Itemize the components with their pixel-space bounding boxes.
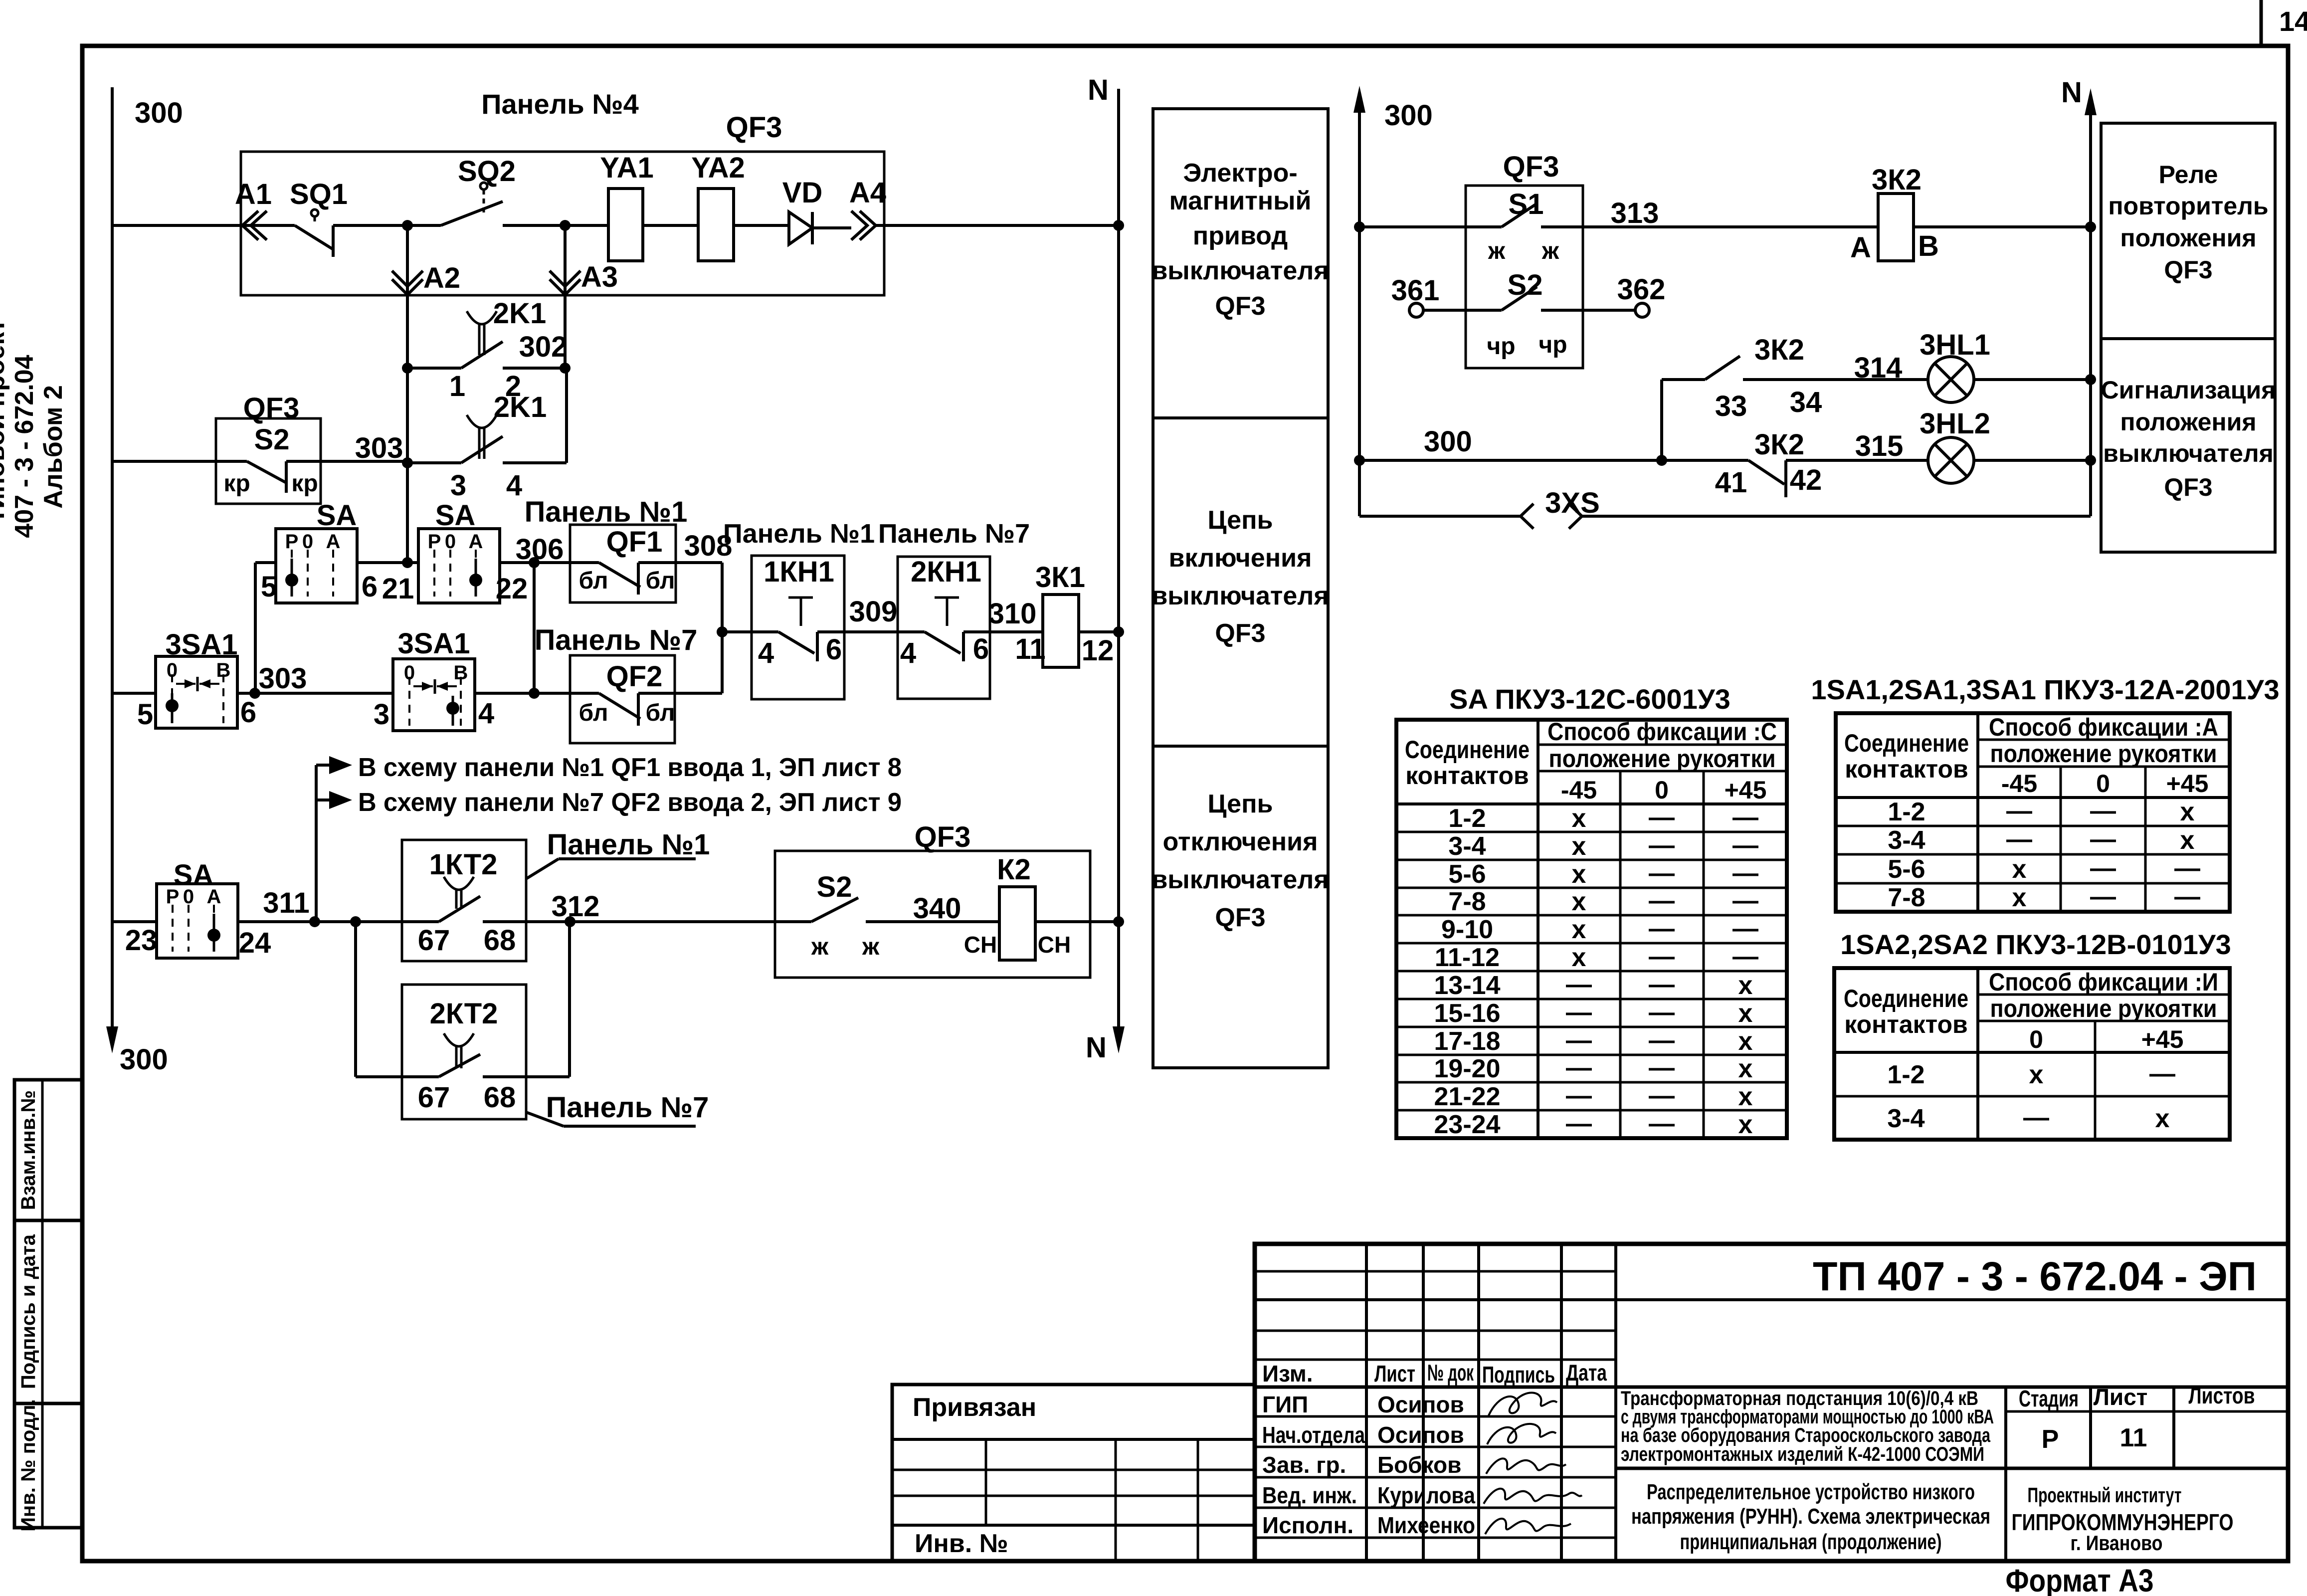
svg-text:Лист: Лист (1374, 1361, 1415, 1387)
svg-text:SA ПКУ3-12С-6001У3: SA ПКУ3-12С-6001У3 (1449, 683, 1730, 715)
svg-text:Курилова: Курилова (1377, 1482, 1475, 1508)
svg-text:300: 300 (1424, 425, 1472, 458)
svg-text:ж: ж (862, 934, 880, 960)
svg-text:QF2: QF2 (606, 660, 663, 693)
svg-text:Р: Р (285, 531, 299, 553)
svg-text:контактов: контактов (1845, 755, 1968, 783)
svg-text:Панель №1: Панель №1 (547, 828, 710, 861)
svg-text:Михеенко: Михеенко (1377, 1512, 1475, 1538)
svg-text:В: В (216, 659, 231, 681)
svg-text:6: 6 (240, 696, 256, 729)
svg-text:СН: СН (964, 932, 997, 958)
svg-text:407 - 3 - 672.04: 407 - 3 - 672.04 (10, 355, 39, 538)
svg-text:3: 3 (374, 698, 389, 731)
svg-text:QF3: QF3 (1503, 151, 1559, 183)
svg-text:Изм.: Изм. (1262, 1361, 1313, 1387)
svg-text:—: — (1566, 1081, 1592, 1110)
svg-text:7-8: 7-8 (1888, 883, 1925, 912)
svg-text:2КТ2: 2КТ2 (430, 997, 498, 1030)
svg-text:QF3: QF3 (1215, 619, 1265, 648)
svg-text:4: 4 (900, 637, 916, 669)
svg-text:0: 0 (2096, 770, 2110, 798)
svg-text:—: — (1649, 859, 1675, 888)
svg-text:Привязан: Привязан (913, 1393, 1036, 1422)
svg-text:4: 4 (478, 697, 494, 730)
svg-text:21-22: 21-22 (1434, 1082, 1501, 1111)
svg-text:x: x (1738, 999, 1753, 1028)
svg-text:3-4: 3-4 (1887, 1104, 1924, 1133)
svg-text:41: 41 (1715, 466, 1747, 499)
svg-text:314: 314 (1854, 352, 1903, 384)
svg-text:включения: включения (1169, 544, 1312, 573)
svg-text:—: — (2006, 825, 2032, 854)
svg-text:x: x (1572, 943, 1586, 972)
svg-text:Способ фиксации :И: Способ фиксации :И (1989, 968, 2218, 996)
svg-text:N: N (1088, 74, 1109, 106)
svg-text:—: — (1566, 1109, 1592, 1138)
svg-text:повторитель: повторитель (2108, 192, 2268, 220)
svg-text:контактов: контактов (1844, 1010, 1968, 1038)
svg-text:4: 4 (506, 469, 522, 502)
svg-text:Цепь: Цепь (1208, 790, 1273, 818)
svg-text:23: 23 (125, 924, 158, 957)
svg-text:№ док: № док (1427, 1360, 1474, 1386)
svg-text:x: x (2180, 798, 2195, 826)
svg-text:Соединение: Соединение (1844, 729, 1969, 757)
svg-text:выключателя: выключателя (1152, 865, 1329, 894)
svg-text:положение рукоятки: положение рукоятки (1549, 745, 1776, 773)
svg-text:x: x (2029, 1060, 2044, 1089)
svg-text:—: — (1732, 831, 1758, 860)
svg-text:3К2: 3К2 (1754, 334, 1804, 366)
svg-text:5: 5 (137, 698, 153, 731)
svg-text:Листов: Листов (2189, 1383, 2255, 1408)
svg-text:303: 303 (259, 662, 307, 695)
svg-text:N: N (2061, 76, 2082, 109)
svg-text:Бобков: Бобков (1377, 1452, 1461, 1478)
svg-text:Распределительное устройство н: Распределительное устройство низкого (1647, 1480, 1975, 1504)
svg-text:362: 362 (1617, 273, 1666, 306)
svg-text:+45: +45 (1725, 776, 1767, 804)
svg-text:N: N (1086, 1031, 1107, 1064)
svg-text:Р: Р (428, 531, 441, 553)
svg-text:отключения: отключения (1163, 827, 1318, 856)
svg-text:QF3: QF3 (915, 821, 971, 853)
svg-text:311: 311 (263, 887, 310, 919)
svg-text:68: 68 (484, 1081, 516, 1114)
svg-text:—: — (1566, 1053, 1592, 1082)
svg-text:S2: S2 (254, 423, 290, 456)
svg-text:—: — (1649, 886, 1675, 915)
svg-text:Взам.инв.№: Взам.инв.№ (17, 1090, 39, 1210)
svg-text:9-10: 9-10 (1441, 915, 1493, 944)
svg-text:положения: положения (2120, 224, 2256, 252)
svg-text:3SA1: 3SA1 (397, 627, 470, 660)
svg-text:—: — (1649, 831, 1675, 860)
svg-text:В: В (454, 662, 468, 684)
svg-text:Исполн.: Исполн. (1262, 1512, 1353, 1538)
svg-text:VD: VD (782, 177, 823, 209)
svg-text:контактов: контактов (1405, 762, 1529, 790)
svg-text:Способ фиксации :А: Способ фиксации :А (1989, 713, 2218, 741)
svg-text:Осипов: Осипов (1377, 1422, 1464, 1448)
svg-text:-45: -45 (2001, 770, 2037, 798)
svg-text:23-24: 23-24 (1434, 1110, 1501, 1139)
svg-text:306: 306 (516, 533, 564, 566)
svg-text:Подпись и дата: Подпись и дата (17, 1234, 39, 1389)
svg-text:1-2: 1-2 (1448, 804, 1486, 833)
svg-text:0: 0 (302, 531, 313, 553)
svg-text:11-12: 11-12 (1435, 943, 1500, 972)
svg-text:А: А (326, 531, 341, 553)
svg-text:+45: +45 (2141, 1025, 2184, 1053)
svg-text:Соединение: Соединение (1405, 736, 1530, 764)
svg-text:Сигнализация: Сигнализация (2101, 376, 2276, 404)
svg-text:—: — (2023, 1103, 2049, 1132)
svg-text:QF3: QF3 (1215, 903, 1265, 932)
svg-text:0: 0 (445, 531, 456, 553)
svg-text:A4: A4 (849, 177, 886, 209)
svg-text:СН: СН (1038, 932, 1071, 958)
svg-text:выключателя: выключателя (1152, 256, 1329, 285)
svg-text:Панель №4: Панель №4 (481, 88, 639, 120)
svg-text:Проектный институт: Проектный институт (2028, 1483, 2182, 1507)
svg-text:бл: бл (579, 700, 608, 726)
svg-text:x: x (1738, 1082, 1753, 1111)
svg-text:15-16: 15-16 (1434, 999, 1501, 1028)
svg-text:312: 312 (552, 890, 600, 923)
svg-text:Подпись: Подпись (1482, 1362, 1555, 1388)
svg-text:+45: +45 (2166, 770, 2209, 798)
svg-text:4: 4 (758, 637, 774, 669)
svg-text:чр: чр (1487, 333, 1515, 360)
svg-text:67: 67 (418, 1081, 450, 1114)
svg-text:—: — (1566, 970, 1592, 999)
svg-text:Типовой проект: Типовой проект (0, 319, 10, 524)
svg-text:—: — (2090, 854, 2116, 883)
svg-text:19-20: 19-20 (1434, 1054, 1501, 1083)
svg-text:Лист: Лист (2094, 1384, 2148, 1410)
svg-text:В: В (1918, 230, 1939, 262)
svg-text:1-2: 1-2 (1888, 798, 1925, 826)
svg-text:—: — (2090, 825, 2116, 854)
svg-text:Нач.отдела: Нач.отдела (1262, 1422, 1365, 1448)
svg-text:—: — (1732, 803, 1758, 832)
svg-text:SQ1: SQ1 (290, 178, 348, 210)
svg-text:—: — (1732, 886, 1758, 915)
svg-text:5: 5 (261, 571, 277, 603)
svg-text:x: x (1572, 915, 1586, 944)
svg-text:кр: кр (291, 470, 318, 497)
svg-text:3К2: 3К2 (1754, 428, 1804, 461)
svg-text:Панель №1: Панель №1 (723, 519, 875, 549)
svg-text:2КН1: 2КН1 (911, 556, 981, 588)
svg-text:13-14: 13-14 (1434, 971, 1501, 1000)
svg-text:12: 12 (1082, 634, 1114, 667)
svg-text:QF3: QF3 (726, 111, 782, 144)
svg-text:г. Иваново: г. Иваново (2071, 1531, 2163, 1555)
svg-text:Вед. инж.: Вед. инж. (1262, 1482, 1357, 1508)
svg-text:x: x (1572, 832, 1586, 861)
svg-text:положения: положения (2120, 408, 2256, 436)
svg-text:0: 0 (1655, 776, 1669, 804)
svg-text:—: — (2006, 797, 2032, 825)
svg-text:—: — (1566, 998, 1592, 1027)
svg-text:—: — (1649, 942, 1675, 971)
svg-text:2K1: 2K1 (494, 391, 547, 423)
svg-text:3К1: 3К1 (1035, 561, 1085, 594)
svg-text:Панель №7: Панель №7 (546, 1091, 709, 1124)
svg-text:21: 21 (382, 573, 414, 605)
svg-text:—: — (1566, 1026, 1592, 1055)
svg-text:0: 0 (2029, 1025, 2043, 1053)
svg-text:Электро-: Электро- (1183, 159, 1297, 188)
svg-text:Панель №1: Панель №1 (525, 496, 688, 528)
svg-text:3XS: 3XS (1545, 487, 1600, 519)
svg-text:1КТ2: 1КТ2 (429, 848, 498, 881)
svg-text:Цепь: Цепь (1208, 506, 1273, 535)
svg-text:1: 1 (449, 370, 465, 402)
svg-text:300: 300 (120, 1043, 168, 1076)
svg-text:—: — (2174, 882, 2200, 911)
svg-text:x: x (1572, 887, 1586, 916)
svg-text:Способ фиксации :С: Способ фиксации :С (1547, 718, 1777, 746)
svg-text:33: 33 (1715, 390, 1747, 422)
svg-text:x: x (1738, 971, 1753, 1000)
svg-text:Альбом 2: Альбом 2 (39, 385, 68, 509)
svg-text:300: 300 (135, 97, 183, 129)
svg-text:Зав. гр.: Зав. гр. (1262, 1452, 1346, 1478)
svg-text:QF3: QF3 (243, 392, 300, 424)
svg-text:Инв. № подл.: Инв. № подл. (17, 1399, 39, 1531)
svg-text:302: 302 (519, 331, 568, 363)
svg-text:—: — (1732, 859, 1758, 888)
svg-text:SA: SA (317, 499, 357, 532)
svg-text:электромонтажных изделий К-42-: электромонтажных изделий К-42-1000 СОЭМИ (1621, 1443, 1984, 1465)
svg-text:—: — (1649, 1081, 1675, 1110)
svg-text:6: 6 (826, 633, 842, 666)
svg-text:принципиальная (продолжение): принципиальная (продолжение) (1680, 1530, 1942, 1554)
svg-text:361: 361 (1391, 274, 1440, 307)
svg-text:313: 313 (1611, 197, 1659, 229)
svg-text:5-6: 5-6 (1888, 855, 1925, 884)
svg-text:A3: A3 (581, 261, 618, 293)
svg-text:67: 67 (418, 924, 450, 957)
svg-text:3: 3 (450, 469, 466, 502)
svg-text:x: x (1572, 860, 1586, 889)
svg-text:S1: S1 (1509, 188, 1544, 220)
svg-text:1КН1: 1КН1 (764, 556, 834, 588)
svg-text:Панель №7: Панель №7 (535, 624, 698, 656)
svg-text:положение рукоятки: положение рукоятки (1990, 995, 2217, 1022)
svg-text:x: x (2012, 855, 2027, 884)
svg-text:303: 303 (355, 432, 403, 464)
svg-text:315: 315 (1855, 430, 1904, 462)
svg-text:Стадия: Стадия (2019, 1386, 2079, 1411)
svg-text:—: — (1649, 803, 1675, 832)
svg-text:1-2: 1-2 (1887, 1060, 1924, 1089)
svg-text:34: 34 (1790, 386, 1822, 418)
svg-text:—: — (1732, 914, 1758, 943)
svg-text:0: 0 (167, 659, 178, 681)
svg-text:Инв. №: Инв. № (915, 1529, 1008, 1558)
svg-text:привод: привод (1193, 221, 1288, 250)
svg-text:42: 42 (1790, 464, 1822, 496)
svg-text:—: — (1649, 914, 1675, 943)
svg-text:6: 6 (362, 571, 378, 603)
svg-text:ж: ж (1541, 238, 1559, 264)
svg-text:x: x (1738, 1110, 1753, 1139)
svg-text:А: А (1850, 231, 1871, 264)
svg-text:выключателя: выключателя (2103, 439, 2274, 467)
svg-text:309: 309 (849, 596, 898, 628)
svg-text:положение рукоятки: положение рукоятки (1990, 740, 2217, 768)
svg-text:магнитный: магнитный (1169, 187, 1312, 215)
svg-text:x: x (1738, 1054, 1753, 1083)
svg-text:—: — (1732, 942, 1758, 971)
svg-text:5-6: 5-6 (1448, 860, 1486, 889)
svg-text:ТП 407 - 3 - 672.04 - ЭП: ТП 407 - 3 - 672.04 - ЭП (1813, 1254, 2257, 1299)
svg-text:бл: бл (579, 568, 608, 594)
svg-text:чр: чр (1538, 332, 1567, 358)
svg-text:S2: S2 (817, 871, 852, 903)
svg-text:1SA2,2SA2 ПКУ3-12В-0101У3: 1SA2,2SA2 ПКУ3-12В-0101У3 (1840, 929, 2231, 960)
svg-text:A2: A2 (423, 262, 460, 294)
svg-text:x: x (2012, 883, 2027, 912)
svg-text:Формат А3: Формат А3 (2006, 1563, 2154, 1596)
svg-text:QF3: QF3 (2164, 473, 2212, 501)
svg-text:выключателя: выключателя (1152, 582, 1329, 610)
svg-text:1SA1,2SA1,3SA1 ПКУ3-12А-2001У3: 1SA1,2SA1,3SA1 ПКУ3-12А-2001У3 (1811, 674, 2279, 705)
svg-text:310: 310 (988, 598, 1037, 630)
svg-text:22: 22 (496, 573, 528, 605)
svg-text:17-18: 17-18 (1434, 1027, 1501, 1056)
svg-text:0: 0 (404, 662, 415, 684)
svg-text:3HL2: 3HL2 (1920, 407, 1990, 440)
svg-text:Дата: Дата (1566, 1360, 1607, 1386)
svg-text:Панель №7: Панель №7 (878, 519, 1030, 549)
svg-text:11: 11 (1015, 633, 1045, 665)
svg-text:Осипов: Осипов (1377, 1392, 1464, 1417)
svg-text:QF1: QF1 (606, 526, 663, 558)
svg-text:14: 14 (2279, 5, 2307, 37)
svg-text:3-4: 3-4 (1448, 832, 1486, 861)
svg-text:ГИП: ГИП (1262, 1392, 1308, 1417)
svg-text:Р: Р (2042, 1425, 2059, 1454)
svg-text:ж: ж (811, 934, 829, 960)
svg-text:YA1: YA1 (600, 152, 654, 184)
svg-text:А: А (469, 531, 483, 553)
svg-text:x: x (2155, 1104, 2170, 1133)
svg-text:YA2: YA2 (691, 152, 745, 184)
svg-text:К2: К2 (997, 853, 1031, 886)
svg-text:Реле: Реле (2159, 161, 2218, 189)
svg-text:3-4: 3-4 (1888, 826, 1925, 855)
svg-text:—: — (2090, 882, 2116, 911)
svg-text:—: — (1649, 1026, 1675, 1055)
svg-text:бл: бл (646, 568, 675, 594)
svg-text:напряжения (РУНН). Схема элект: напряжения (РУНН). Схема электрическая (1631, 1504, 1990, 1529)
svg-text:300: 300 (1384, 99, 1433, 132)
svg-text:2K1: 2K1 (493, 297, 546, 330)
svg-text:7-8: 7-8 (1448, 887, 1486, 916)
svg-text:68: 68 (484, 924, 516, 957)
svg-text:кр: кр (223, 470, 250, 497)
svg-text:Соединение: Соединение (1844, 985, 1968, 1012)
svg-text:3К2: 3К2 (1872, 164, 1922, 196)
svg-text:11: 11 (2120, 1423, 2147, 1452)
svg-text:—: — (1649, 1109, 1675, 1138)
svg-text:x: x (1572, 804, 1586, 833)
svg-text:SA: SA (174, 859, 214, 891)
svg-text:—: — (2149, 1059, 2175, 1088)
svg-text:—: — (1649, 970, 1675, 999)
svg-text:QF3: QF3 (2164, 256, 2212, 284)
svg-text:ж: ж (1488, 238, 1506, 264)
svg-text:QF3: QF3 (1215, 292, 1265, 321)
svg-text:—: — (1649, 1053, 1675, 1082)
svg-text:6: 6 (973, 633, 989, 665)
svg-text:-45: -45 (1561, 776, 1597, 804)
svg-text:бл: бл (646, 700, 675, 726)
svg-text:В схему панели №7 QF2 ввода 2,: В схему панели №7 QF2 ввода 2, ЭП лист 9 (358, 788, 902, 817)
svg-text:24: 24 (239, 927, 271, 959)
svg-text:—: — (2174, 854, 2200, 883)
svg-text:—: — (2090, 797, 2116, 825)
svg-text:340: 340 (913, 892, 961, 925)
svg-text:SA: SA (435, 499, 476, 532)
svg-text:—: — (1649, 998, 1675, 1027)
svg-text:В схему панели №1 QF1 ввода 1,: В схему панели №1 QF1 ввода 1, ЭП лист 8 (358, 753, 902, 782)
svg-text:3SA1: 3SA1 (165, 628, 237, 661)
svg-text:x: x (2180, 826, 2195, 855)
svg-text:x: x (1738, 1027, 1753, 1056)
